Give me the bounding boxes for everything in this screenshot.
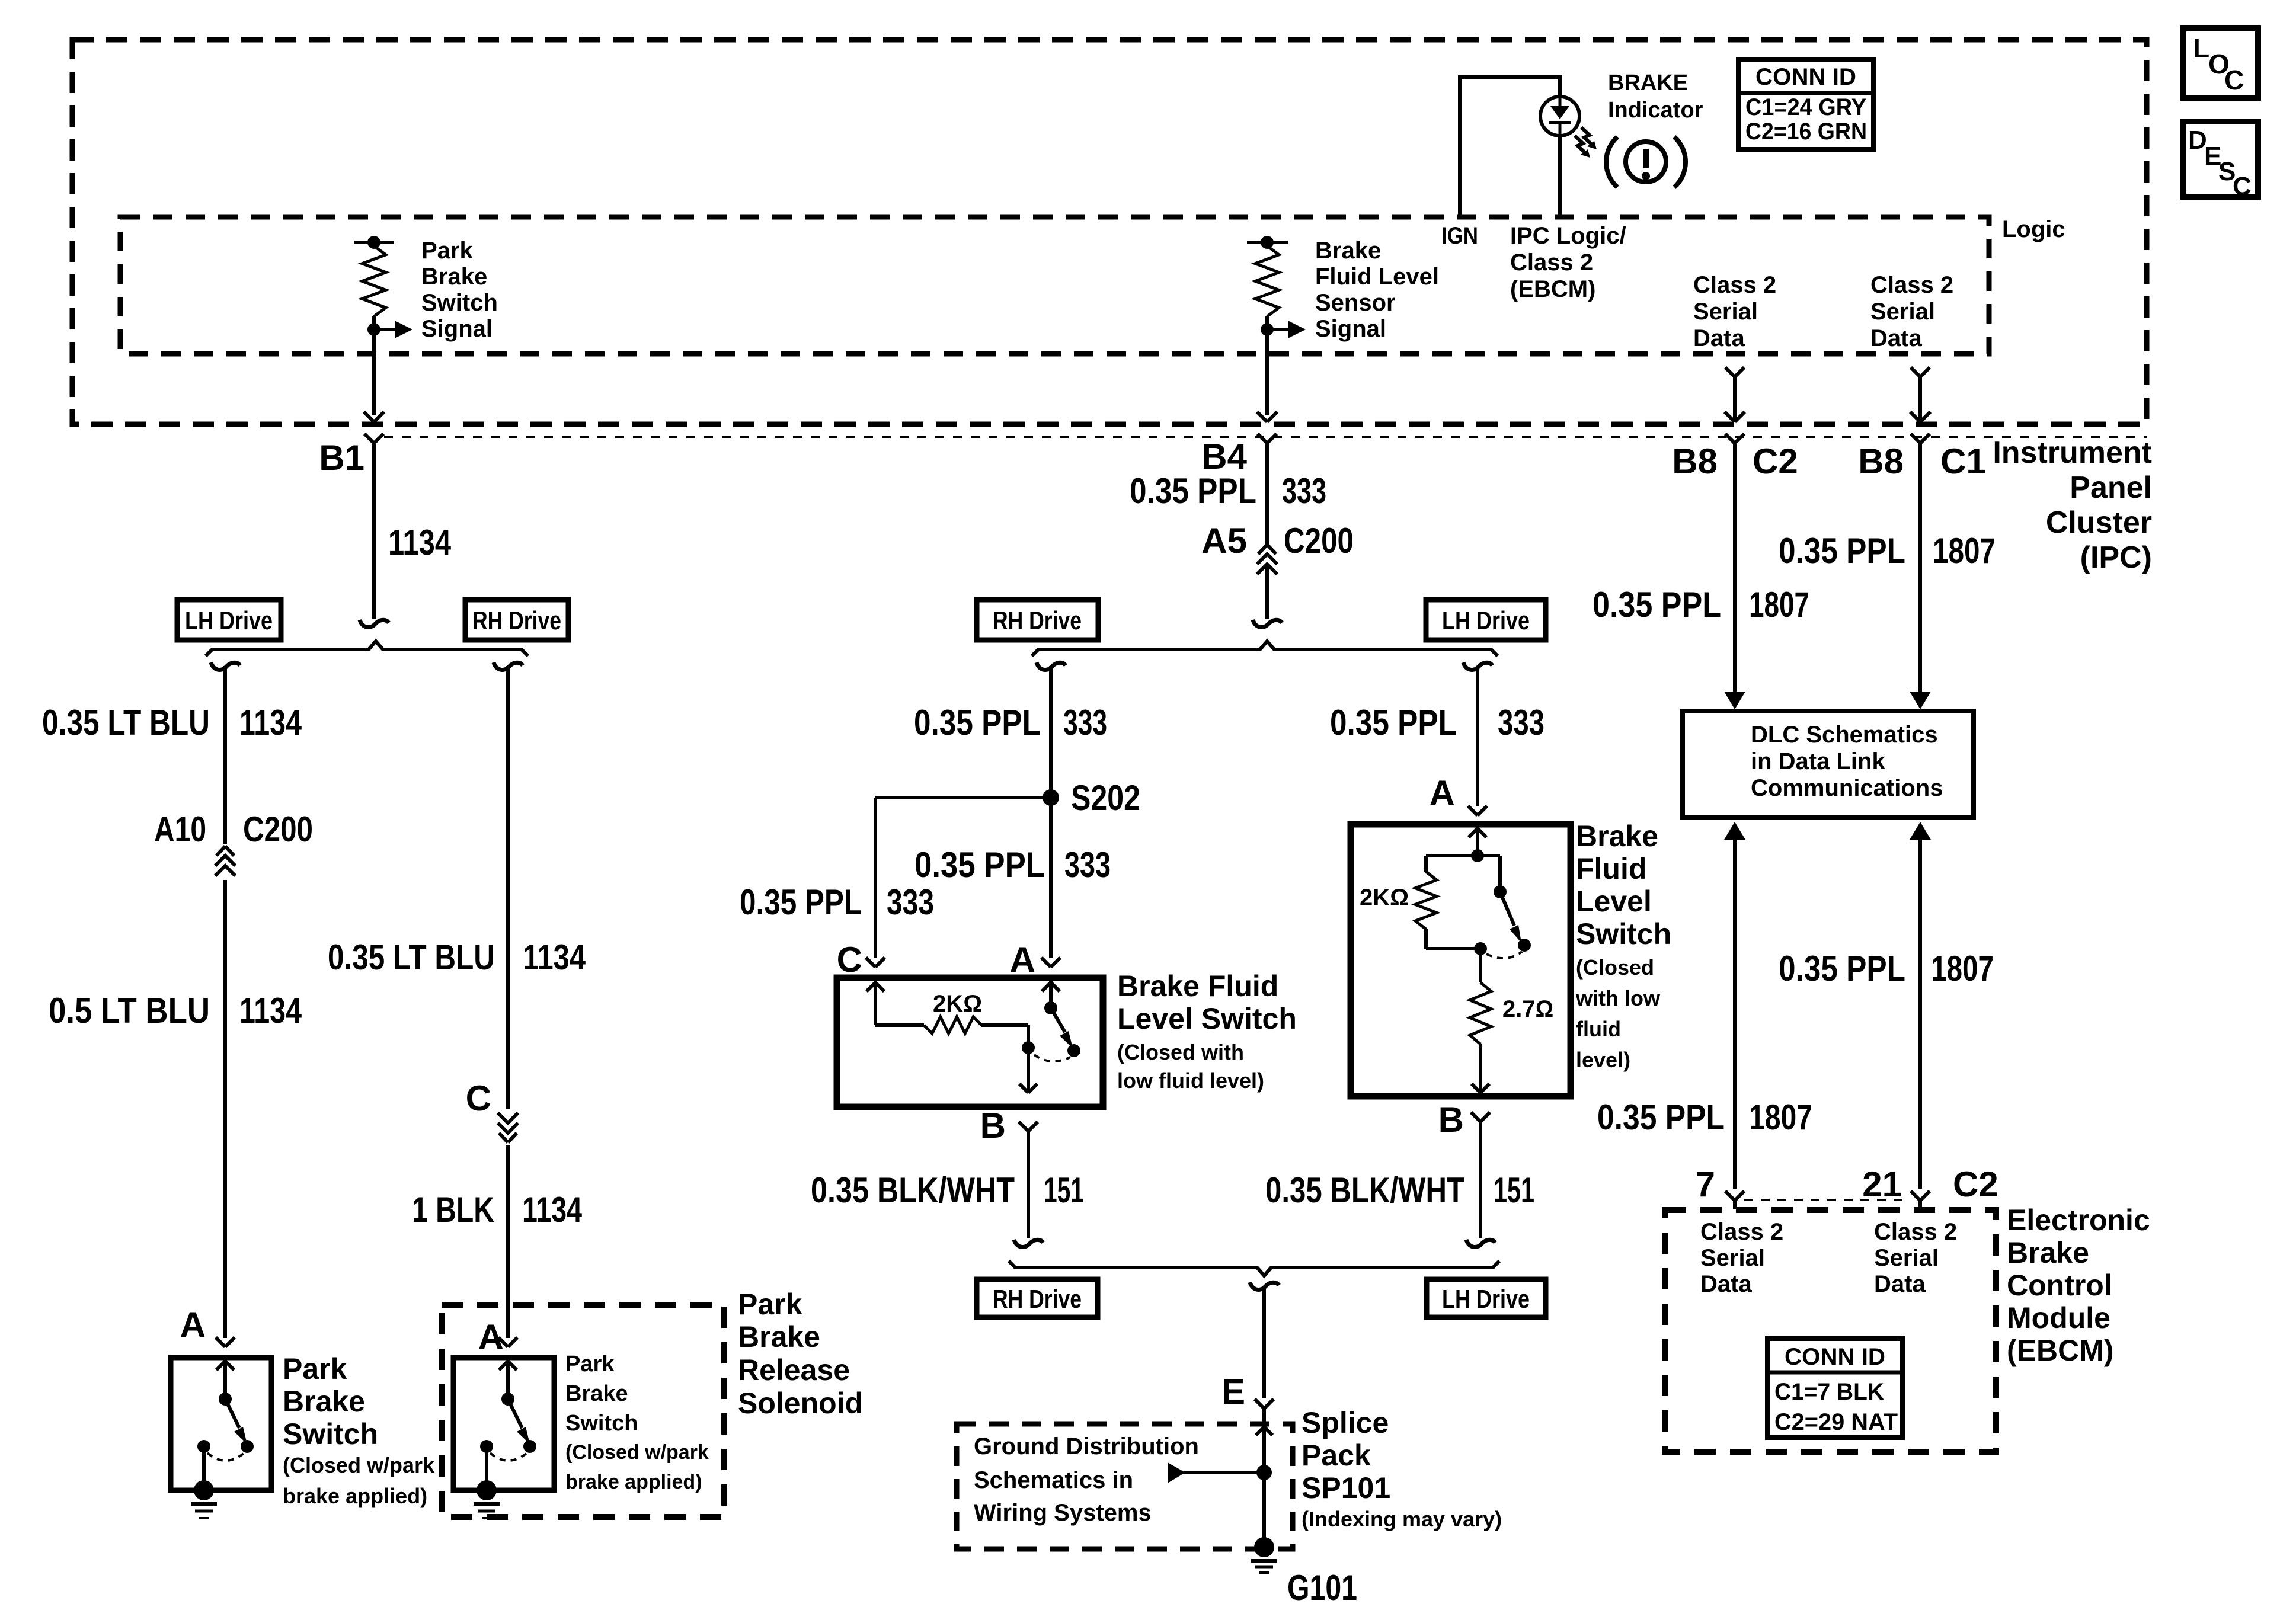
pin B [1019,1122,1028,1131]
svg-text:Park: Park [421,238,473,264]
svg-text:0.35 LT BLU: 0.35 LT BLU [42,703,210,742]
switch blade arrow [1500,892,1514,926]
LH Drive option box [177,600,281,640]
Brake Fluid Level Switch (RH drive) box [837,978,1103,1107]
open contact [241,1440,254,1453]
splice wire w/ up arrow [1262,1424,1266,1543]
switch blade arrow [508,1399,522,1428]
ground stud [194,1480,214,1500]
wire class 2 serial data C2 [1725,367,1735,377]
LH Drive option box [1426,600,1546,640]
svg-text:Brake: Brake [1576,820,1658,853]
svg-text:0.35 BLK/WHT: 0.35 BLK/WHT [811,1170,1015,1210]
in-line connector C [496,1109,520,1145]
wire class 2 serial data C1 [1911,367,1920,377]
svg-text:level): level) [1576,1048,1630,1072]
wire E to splice pack [1250,1282,1279,1289]
svg-text:Control: Control [2007,1269,2112,1302]
svg-text:1134: 1134 [388,523,452,562]
moving contact [219,1393,232,1406]
svg-text:Level Switch: Level Switch [1117,1002,1297,1035]
travel dashed arc [1034,1055,1070,1061]
svg-text:B4: B4 [1201,437,1247,476]
svg-text:151: 151 [1494,1170,1534,1210]
switch interior: input wire w/ up arrow [223,1360,227,1399]
svg-text:Pack: Pack [1302,1439,1371,1472]
svg-text:CONN ID: CONN ID [1755,64,1856,90]
svg-text:1134: 1134 [523,937,586,977]
svg-text:in Data Link: in Data Link [1751,748,1885,774]
svg-text:Signal: Signal [1315,316,1386,342]
svg-text:E: E [1221,1372,1245,1411]
svg-text:Logic: Logic [2002,216,2065,242]
svg-text:2.7Ω: 2.7Ω [1502,996,1553,1022]
closed contact [1022,1041,1035,1054]
DLC Schematics reference box [1683,711,1974,818]
svg-text:Switch: Switch [1576,917,1671,950]
svg-text:Class 2: Class 2 [1693,272,1776,298]
wire LH drive branch [211,662,240,670]
svg-text:C2=16 GRN: C2=16 GRN [1745,119,1867,145]
svg-text:S202: S202 [1071,778,1140,818]
reference triangle to ground distribution [1184,1471,1264,1474]
svg-text:B8: B8 [1858,441,1904,481]
svg-text:Indicator: Indicator [1608,98,1703,123]
svg-text:0.35 BLK/WHT: 0.35 BLK/WHT [1265,1170,1464,1210]
wire to pin C [875,796,1051,799]
moving contact [1494,885,1507,898]
branch to 2K resistor [1426,854,1478,857]
travel dashed arc [1486,952,1522,958]
ground symbol [474,1502,500,1506]
svg-text:1807: 1807 [1931,949,1994,988]
svg-text:7: 7 [1696,1164,1715,1204]
wire EBCM pin 21 to DLC [1910,822,1931,840]
ground symbol [191,1502,217,1506]
wire B4 exits IPC [1257,412,1267,422]
branch to switch [1478,854,1500,857]
closed contact [197,1440,210,1453]
svg-text:with low: with low [1575,986,1661,1010]
bus brace (park brake circuit options) [206,641,528,656]
svg-text:LH Drive: LH Drive [1442,606,1530,635]
svg-text:Splice: Splice [1302,1406,1389,1439]
svg-text:(Closed w/park: (Closed w/park [565,1441,709,1464]
resistor 2.7 ohm [1479,949,1482,982]
Instrument Panel Cluster outer dashed box [72,40,2147,424]
svg-text:G101: G101 [1287,1568,1357,1608]
svg-text:Signal: Signal [421,316,493,342]
svg-text:1134: 1134 [239,991,302,1030]
wire to output contact [981,1023,1028,1027]
svg-text:Park: Park [565,1352,615,1377]
RH Drive option box [977,600,1098,640]
svg-text:C1=24 GRY: C1=24 GRY [1745,94,1866,120]
svg-text:L: L [2193,33,2209,63]
svg-text:Park: Park [738,1288,802,1321]
IPC connector boundary thin dashed line [384,436,2147,438]
svg-text:C2=29 NAT: C2=29 NAT [1774,1409,1898,1435]
svg-text:(Indexing may vary): (Indexing may vary) [1302,1507,1502,1531]
svg-text:C: C [466,1078,491,1118]
Electronic Brake Control Module dashed box [1665,1210,1996,1452]
svg-text:Release: Release [738,1353,850,1387]
svg-text:0.35 PPL: 0.35 PPL [1779,949,1905,988]
IGN feed wire [1460,77,1560,217]
svg-text:B: B [980,1106,1006,1145]
svg-text:Fluid Level: Fluid Level [1315,264,1439,290]
svg-text:A: A [1430,773,1455,813]
wire RH drive BFL branch [1037,662,1066,670]
svg-text:Park: Park [283,1352,347,1385]
svg-text:0.35 PPL: 0.35 PPL [914,845,1045,885]
svg-text:Fluid: Fluid [1576,852,1646,885]
svg-text:Module: Module [2007,1301,2110,1334]
svg-text:Data: Data [1700,1271,1752,1297]
svg-text:Ground Distribution: Ground Distribution [974,1433,1199,1459]
svg-text:RH Drive: RH Drive [993,1285,1082,1314]
svg-text:C1=7 BLK: C1=7 BLK [1774,1379,1884,1405]
svg-text:(EBCM): (EBCM) [2007,1334,2114,1367]
in-line connector A10 / C200 [213,844,237,880]
svg-text:Electronic: Electronic [2007,1204,2150,1237]
svg-text:B8: B8 [1672,441,1718,481]
wire LH drive BFL branch [1463,662,1492,670]
svg-text:Cluster: Cluster [2046,505,2152,540]
bus brace (brake fluid level circuit options) [1032,641,1498,656]
svg-text:(Closed: (Closed [1576,955,1654,980]
svg-text:SP101: SP101 [1302,1471,1390,1505]
svg-text:(Closed with: (Closed with [1117,1040,1244,1064]
svg-text:Instrument: Instrument [1993,436,2152,470]
svg-text:Switch: Switch [283,1417,378,1451]
EBCM connector thin dashed line [1744,1199,1909,1201]
svg-text:B: B [1438,1100,1464,1140]
svg-text:151: 151 [1044,1170,1084,1210]
LOC reference box [2183,28,2258,98]
LED emission arrows [1581,127,1591,144]
svg-text:333: 333 [1282,471,1326,511]
svg-text:C200: C200 [1284,521,1354,561]
Park Brake Release Solenoid dashed box [442,1305,724,1517]
wire RH drive branch [494,662,523,670]
RH Drive option box [977,1279,1098,1317]
switch blade arrow [1051,1008,1065,1032]
svg-text:A10: A10 [154,809,206,849]
svg-text:C: C [2233,172,2252,201]
wire to ground [202,1446,206,1487]
svg-text:1807: 1807 [1749,1097,1812,1137]
svg-text:Brake: Brake [283,1385,365,1418]
svg-text:0.35 PPL: 0.35 PPL [1597,1097,1725,1137]
resistor: Park Brake Switch Signal (IPC internal) [354,241,394,244]
svg-text:0.35 PPL: 0.35 PPL [914,703,1041,742]
svg-text:0.35 LT BLU: 0.35 LT BLU [328,937,495,977]
svg-text:Class 2: Class 2 [1874,1219,1957,1245]
svg-text:A: A [180,1305,206,1345]
svg-text:C1: C1 [1940,441,1986,481]
ground symbol G101 [1251,1559,1277,1563]
switch blade arrow [225,1399,239,1428]
svg-text:low fluid level): low fluid level) [1117,1068,1264,1093]
closed contact + bottom rail [1426,947,1480,950]
LED wire to logic [1558,136,1562,217]
svg-text:RH Drive: RH Drive [472,606,561,635]
pin B [1471,1112,1480,1122]
svg-text:0.35 PPL: 0.35 PPL [1330,703,1457,742]
open contact [523,1440,536,1453]
svg-text:1134: 1134 [239,703,302,742]
svg-text:Serial: Serial [1870,299,1935,325]
svg-text:333: 333 [1498,703,1544,742]
svg-text:Class 2: Class 2 [1700,1219,1783,1245]
Splice Pack SP101 dashed box [957,1424,1293,1549]
CONN ID table (EBCM connectors) [1767,1339,1902,1438]
svg-text:A5: A5 [1201,521,1247,561]
open contact [1067,1044,1080,1057]
ground stud G101 [1254,1537,1274,1557]
svg-text:A: A [1010,940,1035,980]
svg-text:Serial: Serial [1874,1245,1939,1271]
svg-text:0.35 PPL: 0.35 PPL [1779,531,1905,571]
svg-text:1 BLK: 1 BLK [412,1190,494,1230]
in-line connector A5 / C200 [1258,545,1267,554]
svg-text:Switch: Switch [421,290,498,316]
svg-text:1134: 1134 [522,1190,582,1230]
closed contact [480,1440,493,1453]
IPC Logic inner dashed box [120,217,1989,354]
svg-text:Wiring Systems: Wiring Systems [974,1500,1152,1526]
svg-text:brake applied): brake applied) [565,1471,702,1493]
svg-text:Data: Data [1870,325,1922,351]
pin A entry w/ up arrow [1476,827,1479,856]
wire continuation hook [360,620,389,627]
svg-text:Panel: Panel [2070,470,2152,505]
svg-text:Solenoid: Solenoid [738,1387,863,1420]
pin C entry w/ up arrow [874,981,877,1025]
resistor 2K ohm [875,1023,924,1027]
svg-text:0.5 LT BLU: 0.5 LT BLU [49,991,210,1030]
svg-text:C: C [837,940,862,980]
svg-text:C200: C200 [243,809,313,849]
svg-text:Brake: Brake [565,1381,628,1406]
svg-text:1807: 1807 [1749,585,1809,625]
svg-text:C2: C2 [1753,441,1798,481]
CONN ID table (IPC connectors) [1738,59,1873,149]
svg-text:Switch: Switch [565,1411,638,1436]
svg-text:Serial: Serial [1700,1245,1765,1271]
svg-text:0.35 PPL: 0.35 PPL [740,882,862,922]
svg-text:Level: Level [1576,885,1652,918]
svg-text:333: 333 [887,882,934,922]
LED brake indicator lamp [1540,97,1579,136]
svg-text:2KΩ: 2KΩ [1360,885,1409,911]
signal tap arrow [374,328,396,331]
svg-text:Class 2: Class 2 [1510,249,1593,276]
svg-text:21: 21 [1862,1164,1902,1204]
svg-text:Data: Data [1874,1271,1926,1297]
travel dashed arc [207,1453,244,1461]
moving contact [501,1393,514,1406]
open contact [1518,939,1531,952]
svg-text:LH Drive: LH Drive [1442,1285,1530,1314]
svg-text:fluid: fluid [1576,1017,1621,1041]
svg-text:Serial: Serial [1693,299,1758,325]
svg-text:0.35 PPL: 0.35 PPL [1593,585,1721,625]
svg-text:IGN: IGN [1441,223,1478,249]
svg-text:(IPC): (IPC) [2080,540,2152,575]
svg-text:0.35 PPL: 0.35 PPL [1130,471,1256,511]
svg-text:Brake: Brake [738,1320,820,1353]
svg-text:BRAKE: BRAKE [1608,71,1688,95]
svg-text:Communications: Communications [1751,775,1943,801]
svg-text:333: 333 [1064,845,1111,885]
junction dot [1256,1465,1272,1480]
svg-text:Brake: Brake [2007,1236,2089,1269]
DESC reference box [2183,121,2258,197]
svg-text:RH Drive: RH Drive [993,606,1082,635]
Park Brake Switch (LH drive) box [171,1358,271,1490]
svg-text:DLC Schematics: DLC Schematics [1751,722,1938,748]
Brake Fluid Level Switch (LH drive) box [1351,824,1571,1096]
svg-text:Brake: Brake [421,264,487,290]
RH Drive option box [465,600,568,640]
wire EBCM pin 7 to DLC [1724,822,1745,840]
svg-text:IPC Logic/: IPC Logic/ [1510,223,1626,249]
svg-text:brake applied): brake applied) [283,1484,427,1508]
Park Brake Switch (RH drive) box [453,1358,554,1490]
svg-text:(EBCM): (EBCM) [1510,276,1595,302]
svg-text:C: C [2224,65,2244,95]
svg-text:Brake Fluid: Brake Fluid [1117,969,1278,1003]
LH Drive option box [1427,1279,1546,1317]
resistor: Brake Fluid Level Sensor Signal (IPC internal) [1247,241,1288,244]
svg-text:(Closed w/park: (Closed w/park [283,1453,435,1477]
bus brace (ground circuit options) [1009,1261,1499,1276]
svg-text:B1: B1 [319,438,364,478]
svg-text:2KΩ: 2KΩ [933,991,982,1017]
travel dashed arc [490,1453,527,1461]
resistor 2K ohm [1415,872,1437,929]
svg-text:333: 333 [1063,703,1107,742]
svg-text:Brake: Brake [1315,238,1381,264]
wire B1 exits IPC [364,412,374,422]
svg-text:CONN ID: CONN ID [1785,1344,1885,1370]
pin A entry w/ up arrow + moving contact [1049,981,1053,1008]
brake warning telltale icon [1626,142,1666,182]
svg-text:LH Drive: LH Drive [185,606,273,635]
svg-text:Data: Data [1693,325,1745,351]
svg-text:Sensor: Sensor [1315,290,1396,316]
svg-text:Schematics in: Schematics in [974,1467,1133,1493]
splice S202 [1043,789,1059,806]
svg-text:Class 2: Class 2 [1870,272,1953,298]
svg-text:C2: C2 [1953,1164,1998,1204]
svg-text:1807: 1807 [1933,531,1996,571]
